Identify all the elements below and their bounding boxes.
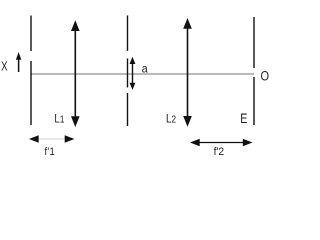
svg-text:O: O <box>261 68 270 84</box>
svg-text:L1: L1 <box>54 113 64 126</box>
svg-text:E: E <box>240 111 247 127</box>
svg-text:X: X <box>1 60 8 74</box>
svg-text:L2: L2 <box>166 113 176 126</box>
svg-text:f'2: f'2 <box>214 146 225 158</box>
svg-text:f'1: f'1 <box>45 147 56 159</box>
svg-text:a: a <box>142 63 149 76</box>
